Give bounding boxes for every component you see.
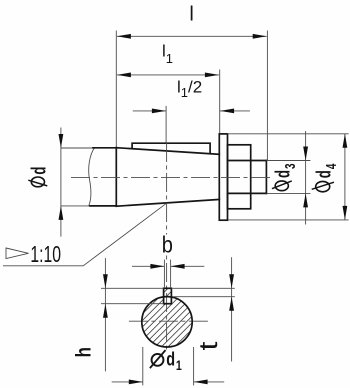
shaft axis centerline (71, 176, 272, 178)
wire extension top of diameter d (61, 147, 116, 149)
svg-text:l: l (189, 4, 193, 26)
wire extension right of d1 (193, 347, 195, 385)
label diameter d1 (152, 354, 164, 366)
shaft taper top surface (116, 148, 219, 155)
svg-text:1:10: 1:10 (30, 242, 61, 268)
wire extension bottom of diameter d4 (228, 219, 348, 221)
wire extension slot bottom left (101, 303, 164, 305)
dimension diameter-d3 line with outside arrows (305, 131, 307, 225)
label h (72, 347, 96, 358)
dimension l1/2 line with outside arrows (133, 110, 166, 112)
wire extension key top left (101, 287, 164, 289)
label diameter d3 (275, 181, 288, 191)
wire extension top of diameter d4 (228, 133, 349, 135)
svg-text:b: b (162, 231, 173, 258)
taper leader line (3, 203, 167, 266)
dimension diameter-d4 line (344, 134, 346, 220)
dimension diameter-d line with outside arrows (60, 128, 62, 237)
nut (228, 145, 251, 209)
svg-text:h: h (72, 347, 96, 358)
collar (219, 134, 227, 220)
dimension b line with outside arrows (132, 265, 164, 267)
threaded stub top line (228, 160, 267, 162)
dimension h line with outside arrows (104, 258, 106, 371)
wire extension bottom of diameter d3 (266, 192, 310, 194)
threaded stub end edge (265, 161, 267, 194)
wire extension left of b (163, 260, 165, 288)
label diameter d (31, 177, 44, 187)
wire extension key top right (171, 287, 234, 289)
wire extension line right of l1 (219, 70, 221, 134)
label b (161, 235, 174, 255)
dimension l1 line (117, 74, 219, 76)
wire extension left of d1 (142, 347, 144, 385)
key on taper (132, 143, 210, 153)
shaft taper big-end edge (115, 148, 117, 207)
dimension t line with outside arrows (231, 257, 233, 361)
section horizontal centerline (129, 320, 211, 322)
wire extension top of diameter d3 (266, 160, 310, 162)
key slot in section (164, 288, 172, 303)
label diameter d4 (316, 181, 330, 191)
dimension l arrows (117, 34, 131, 39)
dimension l1 arrows (117, 73, 131, 78)
wire extension line right of l (266, 31, 268, 161)
dimension l line (117, 35, 267, 37)
wire extension line left of l1/2 (165, 106, 167, 143)
wire extension line left of l and l1 (115, 31, 117, 148)
shaft cylinder outline with break (89, 148, 95, 206)
shaft taper bottom surface (116, 199, 219, 206)
svg-text:d: d (28, 167, 50, 175)
label t (195, 342, 223, 351)
wire extension circle top right (173, 296, 235, 298)
svg-text:t: t (195, 342, 223, 351)
wire extension bottom of diameter d (61, 205, 116, 207)
wire extension right of b (170, 260, 172, 288)
section circle outline (142, 297, 192, 347)
taper symbol triangle (6, 248, 29, 259)
section vertical centerline (166, 143, 168, 352)
dimension d1 line with outside arrows (112, 381, 143, 383)
threaded stub bottom line (228, 192, 267, 194)
